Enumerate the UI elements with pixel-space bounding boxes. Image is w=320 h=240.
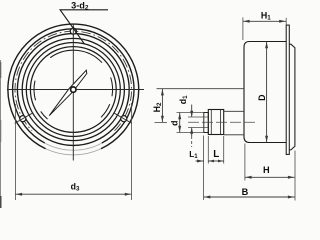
- slash through lower-left hole: [15, 113, 33, 123]
- flange inner circle: [13, 29, 134, 150]
- dial window circle: [26, 43, 120, 137]
- wrench block chamfer lines: [211, 110, 220, 135]
- side view center height line: [157, 88, 245, 90]
- lower-right mounting hole: [121, 116, 127, 122]
- D dimension line: [265, 42, 268, 143]
- stem neck: [224, 111, 244, 135]
- H left extension line: [244, 144, 246, 181]
- center line through top hole: [72, 26, 74, 36]
- svg-text:D: D: [257, 95, 267, 101]
- pointer hub: [71, 87, 76, 92]
- case body outline: [244, 42, 286, 143]
- svg-text:L: L: [213, 149, 219, 160]
- svg-text:B: B: [242, 187, 249, 197]
- bezel inner circle: [22, 38, 124, 140]
- thread tip: [204, 113, 209, 133]
- label d: [170, 121, 180, 126]
- H dimension line: [245, 176, 295, 179]
- label H1: [261, 11, 271, 22]
- front flange plate: [286, 25, 289, 154]
- label L: [213, 149, 219, 160]
- scale arc lower-right segment: [101, 104, 110, 117]
- svg-text:H: H: [263, 165, 270, 175]
- L1 right extension line: [207, 136, 209, 164]
- d1 dimension line: [190, 105, 193, 148]
- d extension lines: [177, 113, 204, 133]
- H/B right extension line: [294, 151, 296, 201]
- left edge scan artifact: [0, 60, 2, 208]
- H2 bottom extension line: [155, 121, 168, 123]
- label H2: [152, 102, 163, 112]
- d3 dimension line: [15, 193, 131, 196]
- leader line for 3-d2: [60, 10, 108, 44]
- flange outer circle: [8, 24, 139, 155]
- d dimension line: [178, 113, 181, 133]
- top mounting hole: [70, 28, 76, 34]
- L dimension line: [208, 160, 223, 163]
- pointer needle: [49, 70, 87, 116]
- scale arc top segment: [50, 50, 102, 62]
- bezel ring profile: [289, 44, 295, 150]
- label D: [257, 95, 267, 101]
- lower-left mounting hole: [20, 116, 26, 122]
- bezel outer circle: [17, 34, 129, 146]
- dial rim circle: [30, 47, 116, 133]
- d3 right extension line: [131, 103, 133, 200]
- label B: [242, 187, 249, 197]
- stem center line: [188, 121, 258, 123]
- thread root lines: [204, 117, 209, 128]
- H2 dimension line: [161, 89, 164, 123]
- scale arc left segment: [34, 81, 36, 101]
- wrench flats block: [208, 110, 223, 135]
- H1 right extension line: [285, 18, 287, 25]
- d3 left extension line: [14, 104, 16, 200]
- slash through lower-right hole: [114, 113, 132, 123]
- label L1: [189, 150, 198, 160]
- scale arc right segment: [111, 77, 113, 96]
- vertical center line: [72, 24, 74, 161]
- H1 dimension line: [243, 20, 286, 23]
- L1 dimension line: [196, 160, 215, 163]
- d1 extension lines: [188, 117, 204, 128]
- svg-text:d: d: [170, 121, 180, 126]
- scale arc lower-left dash: [41, 111, 48, 119]
- horizontal center line: [7, 89, 144, 91]
- B dimension line: [204, 196, 295, 199]
- label d3: [71, 181, 80, 192]
- label d1: [178, 95, 189, 104]
- H1 left extension line: [242, 17, 244, 40]
- B left extension line: [203, 136, 205, 201]
- L right extension line: [223, 136, 225, 164]
- label H: [263, 165, 270, 175]
- bolt circle (dash-dot): [15, 31, 132, 131]
- label 3-d2: [71, 1, 89, 12]
